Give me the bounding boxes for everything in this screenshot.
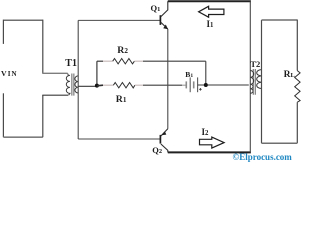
node junction dot at B1 (204, 83, 208, 87)
transformer T1 primary coil (66, 75, 70, 95)
current arrow I1 (left pointing) (199, 6, 224, 17)
label R2 (117, 45, 128, 56)
watermark Elprocus (233, 152, 292, 162)
wire RL loop bottom (262, 142, 298, 144)
wire T1 primary top lead (42, 73, 69, 75)
transistor Q2 emitter (upper, arrow into base) (161, 129, 168, 136)
wire RL loop right upper (296, 20, 298, 71)
wire T1 secondary vertical (base rail) (77, 20, 79, 139)
transistor Q1 collector (161, 1, 168, 16)
transformer T1 core (72, 74, 74, 96)
wire bottom rail (Q2 to T2) (168, 151, 251, 153)
wire B1 right lead / T2 centre tap (198, 84, 249, 86)
battery B1 plus sign (199, 88, 202, 91)
wire R1 right lead to B1 (135, 84, 143, 86)
transformer T2 core (253, 69, 255, 95)
node junction dot left (95, 84, 99, 88)
label B1 (185, 70, 193, 79)
label T1 (65, 58, 77, 69)
resistor R1 (113, 83, 134, 88)
wire VIN loop top (3, 19, 42, 21)
wire VIN left terminal upper (2, 20, 4, 44)
transformer T2 primary coil (250, 71, 253, 94)
resistor RL (295, 71, 300, 103)
transistor Q2 collector lower (161, 144, 168, 152)
label I1 (207, 19, 214, 29)
label RL (284, 70, 295, 80)
transistor Q2 base bar (159, 135, 161, 144)
wire R2 left lead (97, 60, 103, 62)
label VIN (1, 69, 18, 78)
wire emitter junction vertical (167, 29, 169, 129)
wire VIN loop bottom (3, 136, 42, 138)
label I2 (202, 127, 209, 137)
current arrow I2 (right pointing) (200, 137, 225, 148)
transistor Q1 emitter with arrow (161, 22, 168, 29)
wire R2-R1 left connector (96, 61, 98, 85)
wire T1 centre tap (78, 85, 97, 87)
label T2 (250, 59, 260, 69)
wire RL loop right lower (296, 102, 298, 143)
wire R2 right lead to B1 plus (134, 60, 143, 62)
wire top rail (Q1 collector to T2) (168, 0, 251, 2)
wire VIN loop right lower (42, 95, 44, 137)
wire Q1 base wire (78, 19, 160, 21)
transistor Q1 base bar (159, 15, 161, 25)
label Q2 (152, 145, 162, 155)
resistor R2 (113, 59, 135, 64)
transformer T2 primary vertical (249, 1, 251, 152)
wire R1 left lead (97, 84, 103, 87)
battery B1 (185, 81, 187, 88)
transformer T2 secondary coil (257, 70, 262, 89)
wire T1 primary bottom lead (42, 94, 68, 96)
wire T2 secondary vertical / RL loop left (261, 20, 263, 143)
wire Q2 base wire (78, 138, 160, 140)
transformer T1 secondary coil (75, 76, 78, 93)
wire VIN loop right upper (42, 20, 44, 74)
label Q1 (151, 3, 161, 13)
label R1 (116, 94, 127, 105)
wire VIN left terminal lower (2, 93, 4, 137)
wire RL loop top (262, 19, 298, 21)
